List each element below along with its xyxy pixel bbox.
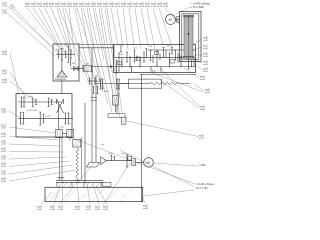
- gearbox gear cluster 5: [180, 56, 194, 69]
- svg-text:z=52: z=52: [203, 71, 209, 73]
- svg-text:z=30: z=30: [203, 37, 209, 39]
- right labels: [200, 37, 211, 111]
- horizontal spring: [150, 82, 190, 85]
- svg-text:z=47: z=47: [60, 127, 65, 129]
- svg-text:z=42: z=42: [86, 209, 92, 211]
- bracket hatched: [73, 140, 81, 148]
- belt column outer: [180, 12, 202, 62]
- svg-text:z=40: z=40: [203, 56, 209, 58]
- svg-text:n=945 об/мин: n=945 об/мин: [193, 2, 210, 6]
- svg-text:z=14: z=14: [37, 206, 43, 208]
- svg-text:z=38: z=38: [50, 209, 56, 211]
- svg-text:z=18: z=18: [1, 133, 7, 135]
- shift blocks: [118, 52, 175, 65]
- svg-text:z=52: z=52: [75, 209, 81, 211]
- svg-text:z=48: z=48: [203, 64, 209, 66]
- arm flange: [116, 105, 118, 114]
- gearbox gear cluster 3: [143, 49, 161, 73]
- svg-text:z=23: z=23: [103, 206, 109, 208]
- belt line to feed worm: [96, 83, 129, 85]
- gearbox gear cluster 4: [163, 48, 178, 67]
- vertical spring: [76, 148, 79, 180]
- clutch bowtie: [74, 66, 79, 70]
- svg-text:n=950: n=950: [199, 164, 206, 167]
- svg-text:z=24: z=24: [1, 171, 7, 173]
- svg-text:z=30: z=30: [1, 141, 7, 143]
- svg-text:z=25: z=25: [50, 206, 56, 208]
- svg-text:z=52: z=52: [91, 6, 97, 8]
- svg-text:z=21: z=21: [2, 70, 8, 72]
- svg-text:z=27: z=27: [1, 125, 7, 127]
- svg-text:z=21: z=21: [203, 68, 209, 70]
- svg-text:z=61: z=61: [31, 6, 37, 8]
- head top rails: [79, 45, 114, 48]
- svg-text:z=26: z=26: [45, 116, 51, 118]
- svg-text:z=48: z=48: [1, 112, 7, 114]
- svg-text:z=28: z=28: [200, 76, 206, 78]
- worm gearbox hatched: [117, 84, 119, 96]
- svg-text:z=28: z=28: [86, 206, 92, 208]
- svg-text:z=17: z=17: [95, 206, 101, 208]
- svg-text:z=38: z=38: [2, 73, 8, 75]
- svg-text:z=48: z=48: [2, 54, 8, 56]
- horizontal shaft to motor: [106, 160, 132, 162]
- coupling hatched: [132, 159, 136, 166]
- motor top: [166, 14, 176, 24]
- svg-text:z=49: z=49: [139, 6, 145, 8]
- svg-text:z=50: z=50: [1, 128, 7, 130]
- svg-text:z=50: z=50: [104, 91, 109, 93]
- svg-text:z=47: z=47: [1, 159, 7, 161]
- svg-text:z=32: z=32: [143, 205, 149, 207]
- svg-text:z=17: z=17: [203, 45, 209, 47]
- svg-text:z=56: z=56: [203, 48, 209, 50]
- svg-text:z=56: z=56: [127, 6, 133, 8]
- svg-text:z=39: z=39: [109, 6, 115, 8]
- fraction bars top labels: [2, 4, 168, 11]
- svg-text:z=58: z=58: [103, 6, 109, 8]
- svg-text:z=43: z=43: [2, 82, 8, 84]
- body right edge: [141, 74, 143, 201]
- gearbox bottom rail: [140, 73, 196, 75]
- shaft I in head: [56, 46, 75, 63]
- callout wires right edge: [66, 4, 204, 196]
- svg-text:z=44: z=44: [200, 79, 206, 81]
- svg-text:z=51: z=51: [115, 6, 121, 8]
- feed screws down: [60, 137, 63, 180]
- callout wires top-left fan: [7, 6, 180, 117]
- svg-text:z=30: z=30: [1, 109, 7, 111]
- svg-text:n=1420 об/мин: n=1420 об/мин: [196, 182, 214, 186]
- svg-text:z=18: z=18: [199, 135, 205, 137]
- svg-text:z=44: z=44: [151, 6, 157, 8]
- feed shaft middle: [18, 112, 73, 125]
- callout wires left edge: [9, 53, 76, 181]
- svg-text:z=42: z=42: [121, 6, 127, 8]
- svg-text:t=6: t=6: [101, 143, 105, 146]
- vertical spindle shaft: [61, 54, 63, 70]
- svg-text:z=16: z=16: [133, 48, 138, 50]
- svg-text:z=55: z=55: [1, 151, 7, 153]
- svg-text:z=65: z=65: [85, 64, 90, 66]
- left labels: [1, 51, 8, 183]
- shaft II vertical in head: [70, 54, 72, 67]
- svg-text:z=2: z=2: [149, 46, 153, 48]
- svg-text:z=50: z=50: [205, 92, 211, 94]
- svg-text:z=45: z=45: [1, 136, 7, 138]
- svg-text:z=68: z=68: [2, 12, 8, 14]
- vertical quill lines: [84, 103, 86, 183]
- svg-text:z=44: z=44: [37, 6, 43, 8]
- svg-text:z=55: z=55: [67, 6, 73, 8]
- belt band: [184, 15, 193, 58]
- svg-text:z=50: z=50: [25, 6, 31, 8]
- svg-text:z=55: z=55: [95, 209, 101, 211]
- spring housing rect: [129, 79, 162, 88]
- crossed belt: [57, 99, 64, 113]
- svg-text:z=46: z=46: [1, 174, 7, 176]
- svg-text:z=47: z=47: [49, 6, 55, 8]
- shaft out of head: [71, 68, 83, 70]
- worm units: [56, 129, 62, 137]
- svg-text:z=20: z=20: [58, 206, 64, 208]
- svg-text:z=45 z=35: z=45 z=35: [27, 110, 38, 112]
- feed gearbox: [16, 94, 72, 138]
- gearbox gear cluster 2: [126, 50, 141, 72]
- svg-text:z=52: z=52: [1, 166, 7, 168]
- svg-text:N=1,5кВт: N=1,5кВт: [193, 5, 205, 9]
- motor bottom: [144, 158, 154, 168]
- spindle cone: [57, 70, 67, 77]
- svg-text:z=35: z=35: [43, 6, 49, 8]
- svg-text:N=1,7 кВт: N=1,7 кВт: [196, 186, 208, 190]
- svg-text:z=46: z=46: [58, 209, 64, 211]
- svg-text:M1: M1: [72, 63, 76, 65]
- svg-text:z=1: z=1: [117, 93, 121, 95]
- svg-text:z=46: z=46: [133, 6, 139, 8]
- top labels: [2, 2, 169, 14]
- svg-text:z=43: z=43: [85, 6, 91, 8]
- belt column inner: [182, 14, 199, 60]
- main gearbox: [114, 45, 196, 73]
- main input wire to gearbox: [92, 66, 113, 68]
- svg-text:z=45: z=45: [203, 40, 209, 42]
- feed vertical: [58, 104, 60, 130]
- svg-text:z=35: z=35: [166, 45, 171, 47]
- gear on spindle v: [88, 78, 99, 94]
- spindle head box: [53, 44, 79, 81]
- svg-text:z=16: z=16: [75, 206, 81, 208]
- svg-text:z=53: z=53: [157, 6, 163, 8]
- svg-text:z=25: z=25: [97, 81, 102, 83]
- table supports hatched: [57, 182, 72, 187]
- svg-text:z=54: z=54: [2, 5, 8, 7]
- svg-text:z=40: z=40: [73, 6, 79, 8]
- bottom labels: [37, 205, 149, 211]
- svg-text:z=51: z=51: [1, 181, 7, 183]
- svg-text:z=40: z=40: [103, 209, 109, 211]
- svg-text:z=48: z=48: [163, 6, 169, 8]
- callout wires bottom: [41, 162, 145, 205]
- base: [45, 187, 143, 201]
- svg-text:z=33: z=33: [203, 61, 209, 63]
- svg-text:z=42: z=42: [1, 144, 7, 146]
- svg-text:z=4: z=4: [120, 54, 124, 56]
- gearbox gear cluster 1: [114, 45, 123, 73]
- svg-text:z=60: z=60: [79, 6, 85, 8]
- svg-text:z=40: z=40: [121, 153, 126, 155]
- svg-text:z=50: z=50: [28, 96, 34, 98]
- svg-text:z=48: z=48: [143, 208, 149, 210]
- svg-text:z=45: z=45: [97, 6, 103, 8]
- scattered tiny labels: [56, 45, 171, 155]
- svg-text:z=60: z=60: [37, 209, 43, 211]
- svg-text:z=25: z=25: [203, 53, 209, 55]
- svg-text:M: M: [169, 18, 172, 22]
- head right wall: [91, 48, 93, 163]
- svg-text:z=24: z=24: [2, 51, 8, 53]
- svg-text:z=40: z=40: [145, 6, 151, 8]
- svg-text:z=16: z=16: [2, 79, 8, 81]
- feed shaft top: [18, 97, 62, 107]
- svg-text:z=72: z=72: [199, 138, 205, 140]
- svg-text:z=19: z=19: [200, 106, 206, 108]
- svg-text:z=34: z=34: [10, 7, 16, 9]
- svg-text:z=22: z=22: [1, 148, 7, 150]
- svg-text:z=58: z=58: [200, 109, 206, 111]
- svg-text:z=35: z=35: [205, 89, 211, 91]
- svg-text:z=19: z=19: [1, 163, 7, 165]
- bevel pair bottom: [87, 163, 100, 168]
- svg-text:z=50: z=50: [55, 6, 61, 8]
- lower pulley hatched: [185, 52, 193, 59]
- arrow: [110, 65, 113, 67]
- svg-text:z=41: z=41: [61, 6, 67, 8]
- gearbox shafts: [115, 50, 196, 67]
- svg-text:шпиндель: шпиндель: [55, 79, 67, 81]
- hatched gear on shaft: [84, 66, 92, 71]
- svg-text:z=26: z=26: [1, 156, 7, 158]
- table: [56, 180, 103, 182]
- fraction bars side labels: [1, 39, 210, 208]
- svg-text:z=28: z=28: [1, 178, 7, 180]
